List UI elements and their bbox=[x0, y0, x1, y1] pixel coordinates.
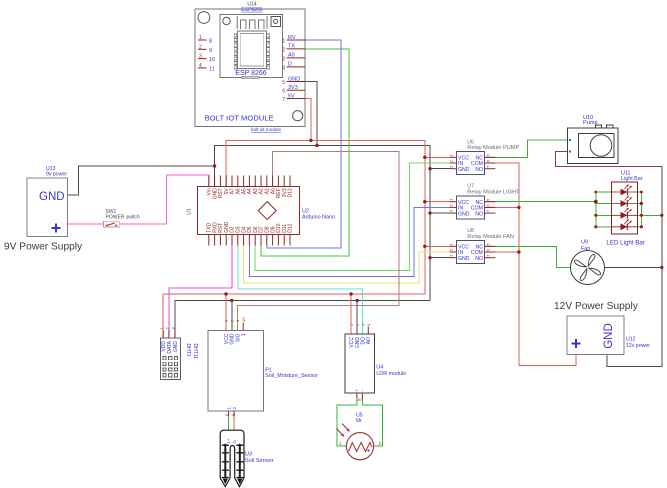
svg-text:VCC: VCC bbox=[349, 337, 355, 348]
svg-text:U4: U4 bbox=[376, 365, 383, 371]
svg-text:GND: GND bbox=[458, 256, 470, 262]
svg-text:bolt iot module: bolt iot module bbox=[251, 127, 281, 132]
svg-text:GND: GND bbox=[39, 191, 65, 203]
svg-text:-dVT: -dVT bbox=[355, 397, 364, 402]
svg-text:10: 10 bbox=[209, 57, 215, 63]
svg-text:NO: NO bbox=[475, 167, 483, 173]
svg-text:D13: D13 bbox=[288, 188, 294, 197]
svg-text:Soil_Moisture_Sensor: Soil_Moisture_Sensor bbox=[265, 373, 318, 379]
svg-text:U9: U9 bbox=[581, 240, 588, 246]
svg-text:GND: GND bbox=[603, 323, 615, 349]
svg-text:2: 2 bbox=[282, 47, 285, 53]
svg-text:2: 2 bbox=[379, 440, 382, 445]
svg-text:G: G bbox=[232, 440, 237, 443]
svg-text:GND: GND bbox=[173, 341, 179, 353]
svg-text:3V3: 3V3 bbox=[288, 85, 298, 91]
svg-text:11: 11 bbox=[209, 66, 215, 72]
svg-text:1: 1 bbox=[199, 35, 202, 41]
svg-text:Relay Module PUMP: Relay Module PUMP bbox=[467, 145, 519, 151]
svg-text:8: 8 bbox=[209, 39, 212, 45]
svg-text:1: 1 bbox=[226, 407, 231, 410]
svg-text:DHT1: DHT1 bbox=[185, 344, 191, 357]
svg-text:NO: NO bbox=[475, 256, 483, 262]
svg-text:5: 5 bbox=[282, 80, 285, 86]
svg-text:2: 2 bbox=[232, 407, 237, 410]
svg-text:GND: GND bbox=[458, 211, 470, 217]
svg-text:U1: U1 bbox=[187, 208, 193, 215]
svg-text:5V: 5V bbox=[288, 93, 295, 99]
svg-text:Fan: Fan bbox=[581, 246, 590, 252]
svg-text:GND: GND bbox=[288, 76, 300, 82]
svg-text:1: 1 bbox=[282, 39, 285, 45]
svg-text:4: 4 bbox=[282, 65, 285, 71]
svg-text:U3: U3 bbox=[245, 452, 252, 458]
svg-text:ldr: ldr bbox=[356, 418, 362, 424]
svg-text:Relay Module FAN: Relay Module FAN bbox=[467, 234, 514, 240]
svg-text:ESP 8266: ESP 8266 bbox=[235, 70, 267, 77]
svg-text:GND: GND bbox=[458, 167, 470, 173]
svg-text:POWER switch: POWER switch bbox=[106, 214, 140, 220]
svg-text:9: 9 bbox=[209, 48, 212, 54]
svg-text:RV: RV bbox=[288, 35, 296, 41]
svg-text:1+: 1+ bbox=[226, 438, 231, 443]
svg-text:4: 4 bbox=[199, 63, 202, 69]
svg-text:D: D bbox=[288, 62, 292, 68]
svg-text:TX: TX bbox=[288, 44, 295, 50]
svg-text:DHT11: DHT11 bbox=[192, 344, 198, 360]
svg-text:3: 3 bbox=[282, 56, 285, 62]
svg-text:3: 3 bbox=[199, 54, 202, 60]
svg-text:ESP8266: ESP8266 bbox=[241, 7, 262, 13]
svg-text:Pump: Pump bbox=[583, 120, 598, 126]
svg-text:Light Bar: Light Bar bbox=[621, 176, 643, 182]
svg-text:D12: D12 bbox=[288, 223, 294, 232]
svg-text:A0: A0 bbox=[288, 53, 295, 59]
svg-text:7: 7 bbox=[282, 97, 285, 103]
svg-text:9V Power Supply: 9V Power Supply bbox=[4, 242, 83, 253]
svg-text:10: 10 bbox=[241, 317, 246, 322]
svg-text:BOLT IOT MODULE: BOLT IOT MODULE bbox=[205, 113, 274, 122]
svg-text:12v power: 12v power bbox=[626, 343, 650, 349]
svg-text:9v power: 9v power bbox=[46, 172, 67, 178]
svg-text:2: 2 bbox=[199, 44, 202, 50]
svg-text:12V Power Supply: 12V Power Supply bbox=[554, 301, 639, 312]
svg-text:U12: U12 bbox=[626, 337, 636, 343]
svg-text:6: 6 bbox=[282, 89, 285, 95]
svg-text:Relay Module LIGHT: Relay Module LIGHT bbox=[467, 189, 520, 195]
svg-text:NO: NO bbox=[475, 211, 483, 217]
svg-text:Arduino Nano: Arduino Nano bbox=[302, 214, 335, 220]
svg-text:AO: AO bbox=[366, 337, 372, 344]
svg-text:LDR module: LDR module bbox=[376, 371, 406, 377]
svg-text:Soil Sensor: Soil Sensor bbox=[245, 458, 274, 464]
svg-text:LED Light Bar: LED Light Bar bbox=[606, 240, 645, 247]
svg-text:1: 1 bbox=[241, 333, 247, 336]
svg-text:1: 1 bbox=[339, 440, 342, 445]
